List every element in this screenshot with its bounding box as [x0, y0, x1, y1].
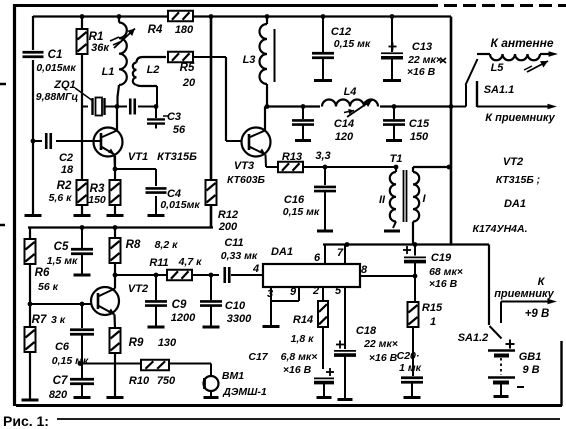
svg-text:К антенне: К антенне — [491, 36, 554, 50]
svg-text:20: 20 — [182, 77, 196, 89]
svg-text:0,015мк: 0,015мк — [36, 62, 76, 74]
svg-text:750: 750 — [157, 375, 176, 387]
svg-text:3 к: 3 к — [51, 314, 66, 326]
svg-text:VT1: VT1 — [128, 151, 148, 163]
svg-text:150: 150 — [410, 131, 429, 143]
svg-text:C6: C6 — [55, 341, 70, 353]
svg-text:3: 3 — [267, 288, 273, 300]
svg-text:1,5 мк: 1,5 мк — [47, 255, 78, 267]
svg-text:7: 7 — [337, 247, 344, 259]
svg-text:6,8 мк×: 6,8 мк× — [281, 351, 318, 363]
svg-text:820: 820 — [49, 389, 68, 401]
svg-text:180: 180 — [175, 24, 194, 36]
svg-text:8,2 к: 8,2 к — [155, 239, 179, 251]
svg-text:R7: R7 — [32, 314, 47, 326]
svg-text:×16 В: ×16 В — [369, 352, 398, 364]
svg-text:C15: C15 — [409, 118, 430, 130]
svg-text:5,6 к: 5,6 к — [49, 192, 73, 204]
svg-text:×16 В: ×16 В — [283, 364, 312, 376]
svg-text:C20·: C20· — [397, 350, 420, 362]
svg-text:1: 1 — [430, 316, 436, 328]
svg-text:C17: C17 — [248, 351, 268, 363]
svg-text:R6: R6 — [35, 267, 50, 279]
svg-text:C13: C13 — [412, 41, 432, 53]
svg-text:Рис. 1:: Рис. 1: — [3, 413, 49, 429]
svg-text:R8: R8 — [126, 239, 141, 251]
svg-text:К приемнику: К приемнику — [485, 112, 555, 124]
svg-text:56: 56 — [173, 124, 186, 136]
svg-text:L1: L1 — [102, 66, 115, 78]
svg-text:0,33 мк: 0,33 мк — [221, 250, 258, 262]
svg-text:C1: C1 — [48, 49, 63, 61]
svg-text:R9: R9 — [129, 337, 144, 349]
svg-text:3300: 3300 — [227, 313, 252, 325]
svg-text:4,7 к: 4,7 к — [178, 256, 203, 268]
svg-text:C12: C12 — [331, 26, 351, 38]
svg-text:VT2: VT2 — [503, 156, 523, 168]
svg-text:T1: T1 — [390, 153, 403, 165]
svg-text:ZQ1: ZQ1 — [53, 79, 75, 91]
svg-text:22 мк×: 22 мк× — [407, 54, 442, 66]
svg-text:DA1: DA1 — [271, 246, 293, 258]
svg-text:C3: C3 — [167, 111, 181, 123]
svg-text:C2: C2 — [59, 152, 73, 164]
svg-text:9,88МГц: 9,88МГц — [36, 91, 79, 103]
svg-text:18: 18 — [61, 164, 74, 176]
svg-text:L5: L5 — [491, 62, 505, 74]
svg-text:R11: R11 — [149, 257, 168, 269]
svg-text:9: 9 — [290, 286, 297, 298]
svg-text:×16 В: ×16 В — [407, 66, 436, 78]
svg-text:22 мк×: 22 мк× — [363, 338, 398, 350]
svg-text:4: 4 — [252, 263, 259, 275]
svg-text:R15: R15 — [422, 302, 443, 314]
svg-text:C16: C16 — [284, 194, 305, 206]
svg-text:36к: 36к — [91, 42, 110, 54]
svg-text:R14: R14 — [293, 314, 313, 326]
svg-text:L2: L2 — [147, 64, 160, 76]
svg-text:R2: R2 — [57, 180, 72, 192]
svg-text:R4: R4 — [148, 24, 163, 36]
svg-text:200: 200 — [218, 221, 238, 233]
svg-text:SA1.1: SA1.1 — [484, 84, 515, 96]
svg-text:КТ315Б ;: КТ315Б ; — [496, 174, 540, 186]
svg-text:8: 8 — [361, 264, 368, 276]
svg-text:0,15 мк: 0,15 мк — [283, 206, 320, 218]
svg-text:68 мк×: 68 мк× — [429, 266, 463, 278]
svg-text:0,15 мк: 0,15 мк — [334, 38, 371, 50]
svg-text:0,15 мк: 0,15 мк — [52, 355, 89, 367]
svg-text:II: II — [379, 194, 386, 206]
svg-text:150: 150 — [88, 194, 106, 206]
svg-text:приемнику: приемнику — [494, 288, 554, 300]
svg-text:SA1.2: SA1.2 — [458, 332, 489, 344]
svg-text:6: 6 — [314, 252, 321, 264]
svg-text:C5: C5 — [54, 241, 69, 253]
svg-text:C9: C9 — [172, 299, 187, 311]
svg-text:+9 В: +9 В — [525, 308, 550, 320]
svg-text:C19: C19 — [431, 252, 452, 264]
svg-text:R12: R12 — [218, 209, 238, 221]
svg-text:L4: L4 — [344, 86, 357, 98]
svg-text:R13: R13 — [282, 151, 302, 163]
svg-text:GB1: GB1 — [519, 351, 542, 363]
svg-text:2: 2 — [312, 285, 319, 297]
svg-text:R5: R5 — [180, 62, 195, 74]
svg-text:КТ315Б: КТ315Б — [157, 151, 197, 163]
svg-text:C11: C11 — [224, 237, 243, 249]
svg-text:C18: C18 — [356, 325, 377, 337]
svg-text:0,015мк: 0,015мк — [160, 199, 200, 211]
svg-text:1,8 к: 1,8 к — [291, 333, 315, 345]
svg-text:1200: 1200 — [171, 312, 196, 324]
svg-text:КТ603Б: КТ603Б — [227, 174, 266, 186]
svg-text:3,3: 3,3 — [315, 150, 330, 162]
svg-text:C10: C10 — [225, 300, 246, 312]
svg-text:9 В: 9 В — [522, 364, 539, 376]
svg-text:DA1: DA1 — [504, 198, 526, 210]
svg-text:C7: C7 — [53, 375, 68, 387]
svg-text:56 к: 56 к — [38, 281, 59, 293]
svg-text:5: 5 — [335, 285, 342, 297]
svg-text:1 мк: 1 мк — [399, 362, 422, 374]
svg-text:L3: L3 — [243, 54, 256, 66]
svg-text:130: 130 — [158, 337, 177, 349]
svg-text:BM1: BM1 — [222, 370, 244, 382]
svg-text:120: 120 — [335, 131, 354, 143]
svg-text:ДЭМШ-1: ДЭМШ-1 — [222, 386, 267, 398]
svg-text:К174УН4А.: К174УН4А. — [472, 223, 527, 235]
svg-text:C14: C14 — [334, 118, 354, 130]
svg-text:VT2: VT2 — [128, 283, 148, 295]
svg-text:R10: R10 — [129, 375, 150, 387]
svg-text:VT3: VT3 — [234, 160, 254, 172]
svg-text:×16 В: ×16 В — [429, 278, 458, 290]
